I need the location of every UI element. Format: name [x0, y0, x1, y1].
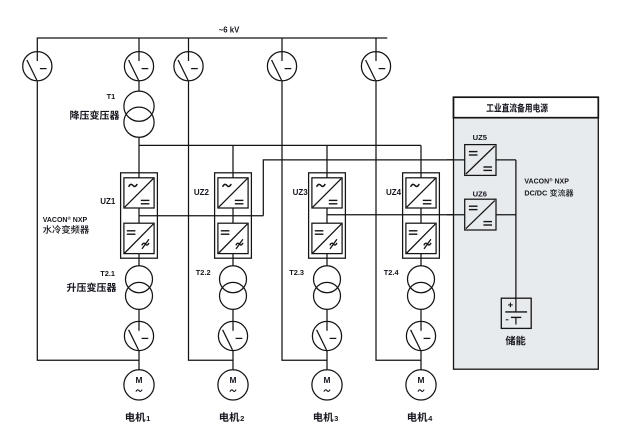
output breaker motor 4 — [406, 321, 435, 350]
converter unit UZ1 outer enclosure — [121, 173, 158, 258]
motor M3 — [312, 370, 342, 400]
label step-up transformer caption — [67, 283, 117, 293]
label label T2.2 — [196, 268, 211, 277]
wire wire T2.4 to output breaker — [420, 309, 422, 321]
label label UZ4 — [386, 188, 402, 197]
svg-text:M: M — [418, 375, 425, 385]
svg-text:UZ6: UZ6 — [473, 189, 487, 198]
wire bus drop to breaker Q2 — [138, 38, 140, 52]
label panel title 工业直流备用电源 — [487, 103, 548, 112]
step-up transformer T2.3 — [314, 266, 341, 310]
wire wire UZ1 to transformer T2.1 — [138, 254, 140, 266]
svg-text:T2.2: T2.2 — [196, 268, 211, 277]
motor M2 — [218, 370, 248, 400]
wire wire DC bus into UZ6 — [447, 214, 465, 216]
wire wire T1 to feeder bus — [138, 137, 140, 145]
step-up transformer T2.1 — [126, 266, 153, 310]
svg-text:UZ2: UZ2 — [194, 188, 210, 197]
6kV bus bar — [37, 37, 388, 39]
energy storage battery — [501, 298, 531, 328]
wire wire breaker to motor 1 — [138, 351, 140, 370]
wire wire UZ4 to transformer T2.4 — [420, 254, 422, 266]
DC/DC converter UZ5 — [465, 145, 496, 176]
label label UZ5 — [473, 133, 488, 142]
output breaker motor 1 — [124, 321, 153, 350]
label motor caption 电机4 — [408, 412, 433, 423]
label motor caption 电机3 — [314, 412, 338, 423]
wire wire UZ5 output — [496, 159, 516, 161]
wire bypass feeder breaker Q1 to motor 1 — [37, 81, 139, 360]
wire UZ1 DC link between modules — [138, 208, 140, 223]
label motor caption 电机1 — [126, 412, 151, 423]
svg-text:3: 3 — [334, 414, 338, 423]
svg-text:UZ4: UZ4 — [386, 188, 402, 197]
wire wire T2.2 to output breaker — [232, 309, 234, 321]
caption VACON NXP drive line1 — [43, 215, 88, 224]
wire wire breaker Q2 to transformer T1 — [138, 81, 140, 91]
wire bypass feeder breaker Q4 to motor 3 — [282, 81, 327, 360]
low-voltage feeder bus from T1 — [139, 144, 421, 146]
svg-text:UZ1: UZ1 — [100, 197, 116, 206]
circuit breaker Q2 — [124, 52, 153, 81]
label label T2.3 — [289, 268, 304, 277]
svg-text:M: M — [230, 375, 237, 385]
wire feeder drop to UZ4 — [420, 145, 422, 177]
wire bus drop to breaker Q3 — [188, 38, 190, 52]
step-up transformer T2.4 — [408, 266, 435, 310]
wire bus drop to breaker Q5 — [375, 38, 377, 52]
label label UZ2 — [194, 188, 210, 197]
svg-text:VACON® NXP: VACON® NXP — [43, 215, 88, 224]
label label T1 — [107, 92, 116, 101]
caption VACON NXP dcdc line1 — [524, 176, 569, 185]
converter unit UZ4 outer enclosure — [403, 173, 440, 258]
motor M3 symbol text — [324, 375, 331, 391]
converter unit UZ2 outer enclosure — [215, 173, 252, 258]
wire wire breaker to motor 2 — [232, 351, 234, 370]
circuit breaker Q3 — [174, 52, 203, 81]
wire wire breaker to motor 4 — [420, 351, 422, 370]
wire feeder drop to UZ2 — [232, 145, 234, 177]
wire wire T2.1 to output breaker — [138, 309, 140, 321]
svg-text:M: M — [136, 375, 143, 385]
motor M4 — [406, 370, 436, 400]
wire feeder drop to UZ1 — [138, 145, 140, 177]
label label UZ6 — [473, 189, 487, 198]
wire bus drop to breaker Q4 — [281, 38, 283, 52]
motor M2 symbol text — [230, 375, 237, 391]
wire DC link bus UZ3-UZ4 to UZ6 — [327, 214, 465, 216]
label bus voltage ~6 kV — [219, 26, 240, 35]
wire wire UZ2 to transformer T2.2 — [232, 254, 234, 266]
step-down transformer T1 — [124, 91, 154, 137]
label label UZ3 — [293, 188, 309, 197]
step-up transformer T2.2 — [220, 266, 247, 310]
wire DC backup bus down to storage — [515, 160, 517, 298]
wire DC link riser to UZ5 — [263, 160, 464, 216]
wire bypass feeder breaker Q3 to motor 2 — [189, 81, 234, 360]
svg-text:T1: T1 — [107, 92, 116, 101]
wire feeder drop to UZ3 — [326, 145, 328, 177]
circuit breaker Q4 — [267, 52, 296, 81]
industrial DC backup supply panel body — [454, 97, 599, 369]
UZ1 rectifier module (AC/DC, top box) — [124, 178, 154, 208]
wire UZ2 DC link between modules — [232, 208, 234, 223]
output breaker motor 2 — [218, 321, 247, 350]
motor M1 symbol text — [136, 375, 143, 391]
output breaker motor 3 — [312, 321, 341, 350]
label step-down transformer caption — [70, 110, 119, 120]
svg-text:M: M — [324, 375, 331, 385]
label energy storage caption 储能 — [506, 336, 526, 346]
wire bypass feeder breaker Q5 to motor 4 — [376, 81, 421, 360]
svg-text:VACON® NXP: VACON® NXP — [524, 176, 569, 185]
converter unit UZ3 outer enclosure — [309, 173, 346, 258]
UZ2 inverter module (DC/AC, bottom box) — [218, 223, 248, 253]
panel header band — [454, 97, 599, 118]
motor M1 — [124, 370, 154, 400]
UZ3 inverter module (DC/AC, bottom box) — [312, 223, 342, 253]
svg-text:T2.4: T2.4 — [384, 268, 400, 277]
wire UZ3 DC link between modules — [326, 208, 328, 223]
UZ4 rectifier module (AC/DC, top box) — [406, 178, 436, 208]
circuit breaker Q1 — [23, 52, 52, 81]
label motor caption 电机2 — [220, 412, 244, 423]
wire wire T2.3 to output breaker — [326, 309, 328, 321]
motor M4 symbol text — [418, 375, 425, 391]
wire wire DC bus into UZ5 — [447, 159, 465, 161]
wire wire breaker to motor 3 — [326, 351, 328, 370]
svg-text:2: 2 — [240, 414, 244, 423]
svg-text:~6 kV: ~6 kV — [219, 26, 240, 35]
caption DC/DC converter line2 — [524, 189, 573, 198]
label caption water-cooled drive line2 — [43, 225, 89, 234]
svg-text:DC/DC: DC/DC — [524, 189, 547, 198]
UZ4 inverter module (DC/AC, bottom box) — [406, 223, 436, 253]
svg-text:UZ3: UZ3 — [293, 188, 309, 197]
label label T2.1 — [100, 269, 115, 278]
UZ2 rectifier module (AC/DC, top box) — [218, 178, 248, 208]
svg-text:UZ5: UZ5 — [473, 133, 488, 142]
UZ3 rectifier module (AC/DC, top box) — [312, 178, 342, 208]
wire wire UZ6 output — [496, 214, 516, 216]
label label UZ1 — [100, 197, 116, 206]
UZ1 inverter module (DC/AC, bottom box) — [124, 223, 154, 253]
svg-text:T2.1: T2.1 — [100, 269, 115, 278]
wire UZ4 DC link between modules — [420, 208, 422, 223]
circuit breaker Q5 — [361, 52, 390, 81]
wire bus drop to breaker Q1 — [36, 38, 38, 52]
wire wire UZ3 to transformer T2.3 — [326, 254, 328, 266]
label label T2.4 — [384, 268, 400, 277]
DC/DC converter UZ6 — [465, 199, 496, 230]
wire DC link bus UZ1-UZ2 — [139, 215, 263, 217]
svg-text:T2.3: T2.3 — [289, 268, 304, 277]
